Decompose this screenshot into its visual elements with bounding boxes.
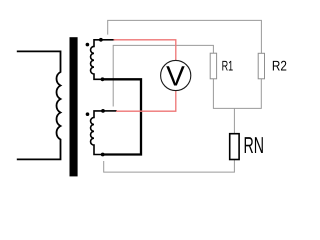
wire black stub node a (101, 39, 115, 41)
svg-text:R1: R1 (222, 57, 234, 73)
wire gray: junction to RN top (233, 108, 235, 133)
primary winding L1 (17, 51, 61, 159)
resistor RN box (230, 134, 239, 160)
polarity dot upper winding (86, 43, 90, 47)
wire gray: RN bottom to secondary 2 bottom (104, 160, 235, 173)
secondary winding L2b (91, 111, 103, 155)
junction dot secondary1 bottom (101, 77, 105, 81)
junction dot secondary2 top (node b) (101, 109, 105, 113)
voltmeter U1 circle (161, 60, 191, 90)
wire black stub node b (103, 110, 117, 112)
wire red: voltmeter bottom to node b (116, 91, 176, 112)
svg-text:RN: RN (244, 132, 265, 158)
polarity dot lower winding (86, 112, 90, 116)
resistor R1 box (210, 53, 216, 79)
transformer core (70, 37, 78, 176)
wire black: secondary 1 bottom to secondary 2 bottom (103, 79, 142, 154)
wire gray bottom net: R1 bottom / R2 bottom junction (213, 79, 261, 109)
wire net gray A: top of secondary 1 to R2 top (108, 20, 262, 53)
svg-text:V: V (166, 60, 185, 91)
resistor R2 box (258, 53, 264, 79)
svg-text:R2: R2 (272, 57, 287, 73)
wire red: node a to voltmeter top (114, 40, 176, 61)
junction dot secondary1 top (node a) (99, 38, 103, 42)
wire net gray B: R1 top to top of secondary 2 (113, 45, 213, 106)
junction dot secondary2 bottom (101, 153, 105, 157)
secondary winding L2a (91, 40, 103, 80)
